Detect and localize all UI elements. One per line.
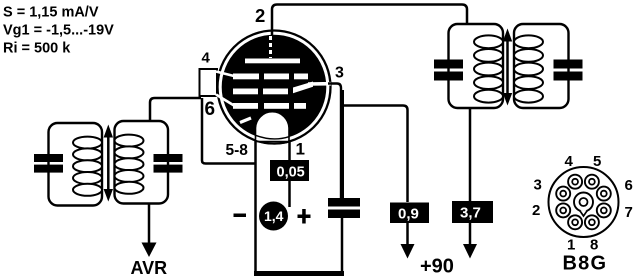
svg-text:2: 2: [532, 202, 540, 219]
svg-text:5-8: 5-8: [226, 142, 249, 159]
grid lead to pin 4: [216, 72, 234, 77]
svg-text:Ri = 500 k: Ri = 500 k: [3, 41, 71, 57]
svg-text:AVR: AVR: [131, 258, 168, 278]
inductor L2 (5 loops): [115, 135, 144, 194]
grid row 2: [233, 82, 313, 95]
tube inner edge: [223, 36, 326, 139]
svg-text:5: 5: [593, 153, 601, 170]
grid box pins 4-6: [200, 69, 218, 96]
internal shield dash: [240, 118, 251, 123]
left IF transformer: primary tank loop: [49, 123, 103, 206]
wire pin 2 to right transformer: [272, 5, 467, 36]
socket pins 4,5,3,6,2,7,1,8 rings: [556, 175, 611, 230]
outer circle arc across dome: [256, 141, 290, 144]
wire branch to 0,9: [342, 106, 408, 203]
svg-text:S = 1,15 mA/V: S = 1,15 mA/V: [3, 5, 99, 21]
anode bar: [245, 59, 300, 64]
grid lead to pin 6: [216, 95, 234, 106]
anode lead dashed: [269, 36, 272, 58]
right IF transformer: primary tank loop: [449, 24, 504, 108]
resistor label 3,7: [452, 201, 493, 223]
svg-text:4: 4: [202, 50, 211, 67]
svg-text:3: 3: [335, 65, 344, 82]
svg-text:8: 8: [590, 237, 598, 254]
wire pin 3 down: [328, 84, 341, 199]
AVR arrowhead: [142, 243, 157, 258]
capacitor C1 plates: [34, 154, 63, 162]
plus sign: [298, 215, 311, 219]
inductor L1 (5 loops): [73, 137, 102, 196]
capacitor C2 plates: [154, 154, 183, 162]
B8G socket outline: [549, 167, 619, 237]
wire grid box to cathode line: [202, 98, 255, 164]
wire L3 bottom to 3,7: [469, 108, 472, 202]
resistor label 0,05: [270, 160, 309, 181]
svg-text:1: 1: [296, 140, 305, 159]
wire C5 bottom: [341, 218, 344, 274]
capacitor C4 plates: [554, 60, 583, 69]
ground bus wire: [254, 271, 344, 276]
wire L2 top to grid box pin 6: [150, 98, 201, 121]
minus sign: [234, 214, 247, 218]
svg-text:2: 2: [255, 5, 265, 26]
wire L2 bottom to AVR: [148, 204, 151, 244]
capacitor C3 plates: [434, 60, 463, 69]
inductor L3 (5 loops): [474, 35, 503, 102]
cathode dome: [256, 112, 290, 142]
svg-text:0,9: 0,9: [398, 206, 419, 223]
svg-text:Vg1 = -1,5...-19V: Vg1 = -1,5...-19V: [3, 23, 114, 39]
wire pin 1 down: [288, 140, 291, 207]
svg-text:3: 3: [534, 177, 542, 194]
capacitor C5 plates: [328, 198, 360, 207]
svg-text:B8G: B8G: [563, 253, 608, 275]
inner edge arc across dome: [256, 135, 290, 139]
right IF transformer: secondary tank loop: [514, 24, 569, 108]
svg-text:6: 6: [625, 177, 633, 194]
svg-text:1,4: 1,4: [264, 208, 284, 224]
tuning arrow (variable coupling): [506, 37, 509, 95]
grid row 1: [233, 74, 308, 80]
socket center spigot: [574, 193, 593, 212]
wire pin 5-8 down: [254, 140, 257, 273]
svg-text:6: 6: [205, 99, 216, 120]
svg-text:3,7: 3,7: [460, 205, 481, 222]
wire 0,9 to +90 arrow: [406, 223, 409, 245]
socket pin center dots: [560, 179, 606, 225]
svg-text:1: 1: [567, 237, 575, 254]
left IF transformer: secondary tank loop: [115, 121, 169, 204]
svg-text:+90: +90: [420, 256, 454, 278]
grid row 3: [233, 103, 306, 109]
svg-text:0,05: 0,05: [277, 165, 305, 181]
tube outer circle: [218, 31, 331, 144]
resistor label 0,9: [390, 203, 429, 224]
grid lead to pin 3: [308, 82, 331, 86]
tube V1 envelope disc: [223, 36, 326, 139]
meter M 1,4: [259, 202, 288, 231]
svg-text:4: 4: [565, 153, 574, 170]
inductor L4 (5 loops): [514, 35, 543, 102]
wire 3,7 arrow: [469, 223, 472, 245]
svg-text:7: 7: [625, 204, 633, 221]
tuning arrow (variable coupling): [107, 133, 110, 192]
